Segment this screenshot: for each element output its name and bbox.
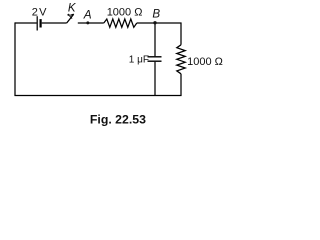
svg-text:K: K [68, 3, 77, 15]
svg-text:A: A [83, 8, 92, 22]
svg-text:2V: 2V [32, 6, 48, 18]
svg-text:B: B [152, 7, 160, 20]
svg-text:1000 Ω: 1000 Ω [187, 56, 223, 68]
svg-text:1000 Ω: 1000 Ω [107, 6, 143, 18]
svg-text:1 μF: 1 μF [129, 54, 149, 65]
svg-text:Fig. 22.53: Fig. 22.53 [90, 112, 146, 126]
